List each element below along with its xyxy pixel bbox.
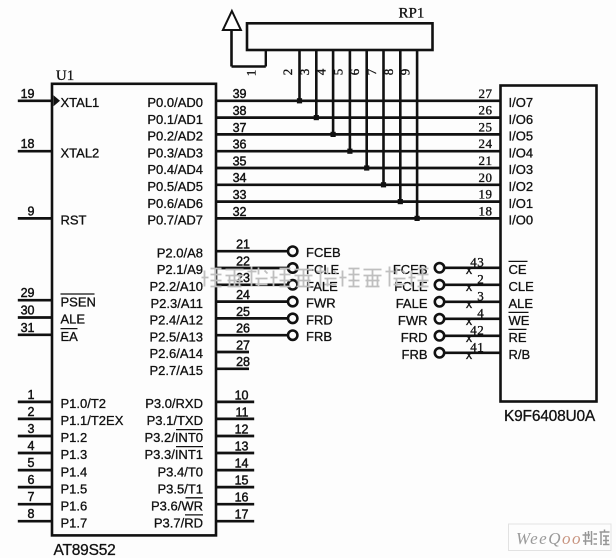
terminal circle FCLE (right): [435, 280, 444, 289]
wire P3.0 stub: [216, 401, 254, 404]
wire pin 31 lead: [18, 333, 52, 336]
terminal circle FALE (left): [288, 280, 297, 289]
wire P0.1/AD1 bus line to I/O6: [216, 116, 501, 119]
terminal circle FWR (right): [435, 314, 444, 323]
wire RP1 pin 2 to P0.0 line: [298, 50, 301, 101]
junction node on P0.6 line: [398, 199, 403, 204]
wire P0.0/AD0 bus line to I/O7: [216, 99, 501, 102]
wire P0.2/AD2 bus line to I/O5: [216, 133, 501, 136]
wire P3.7 stub: [216, 520, 254, 523]
wire pin 8 lead: [18, 520, 52, 523]
junction node on P0.2 line: [331, 132, 336, 137]
overline INT1: [176, 446, 203, 448]
wire FWR to K9F: [445, 317, 501, 320]
wire P0.5/AD5 bus line to I/O2: [216, 183, 501, 186]
wire pin 9 lead: [18, 217, 52, 220]
wire pin 18 lead: [18, 150, 52, 153]
wire pin 2 lead: [18, 418, 52, 421]
wire P0.3/AD3 bus line to I/O4: [216, 150, 501, 153]
overline EA: [61, 328, 78, 330]
wire FRD to K9F: [445, 334, 501, 337]
wire P2.2 to terminal: [216, 283, 287, 286]
wire RP1 pin 7 to P0.5 line: [382, 50, 385, 185]
svg-text:WeeQoo: WeeQoo: [516, 529, 582, 548]
wire P3.2 stub: [216, 435, 254, 438]
wire P0.4/AD4 bus line to I/O3: [216, 167, 501, 170]
wire RP1 pin 3 to P0.1 line: [315, 50, 318, 118]
wire P2.6 stub: [216, 351, 249, 354]
wire RP1 pin 6 to P0.4 line: [365, 50, 368, 168]
terminal circle FRB (right): [435, 348, 444, 357]
wire RP1 pin 9 to P0.7 line: [416, 50, 419, 218]
overline WE: [509, 311, 529, 313]
junction node on P0.4 line: [364, 165, 369, 170]
wire P2.1 to terminal: [216, 267, 287, 270]
wire FCEB to K9F: [445, 266, 501, 269]
terminal circle FRD (left): [288, 314, 297, 323]
wire P3.3 stub: [216, 452, 254, 455]
wire P2.0 to terminal: [216, 250, 287, 253]
维库 pseudo-glyphs: [583, 530, 610, 546]
overline RE: [509, 328, 527, 330]
terminal circle FRD (right): [435, 331, 444, 340]
wire pin 29 lead: [18, 299, 52, 302]
wire pin 4 lead: [18, 452, 52, 455]
wire P2.4 to terminal: [216, 317, 287, 320]
wire P3.6 stub: [216, 503, 254, 506]
wire RP1 pin 4 to P0.2 line: [332, 50, 335, 134]
junction node on P0.3 line: [347, 149, 352, 154]
wire RP1 pin 5 to P0.3 line: [349, 50, 352, 151]
wire pin 1 lead: [18, 401, 52, 404]
wire pin 5 lead: [18, 469, 52, 472]
op-amp U1 AT89S52 microcontroller body: [52, 84, 216, 536]
wire P2.5 to terminal: [216, 334, 287, 337]
wire RP1 pin 1 stub: [265, 50, 267, 67]
terminal circle FCLE (left): [288, 263, 297, 272]
junction node on P0.0 line: [297, 98, 302, 103]
wire P0.6/AD6 bus line to I/O1: [216, 200, 501, 203]
resistor network RP1 body: [247, 23, 433, 50]
wire FCLE to K9F: [445, 283, 501, 286]
junction node on P0.1 line: [314, 115, 319, 120]
power symbol VCC arrow: [223, 11, 241, 30]
overline INT0: [176, 429, 203, 431]
terminal circle FWR (left): [288, 297, 297, 306]
wire P3.4 stub: [216, 469, 254, 472]
overline PSEN: [61, 293, 95, 295]
wire P0.7/AD7 bus line to I/O0: [216, 217, 501, 220]
wire FRB to K9F: [445, 351, 501, 354]
overline CE: [509, 260, 528, 262]
wire pin 7 lead: [18, 503, 52, 506]
wire P2.3 to terminal: [216, 300, 287, 303]
terminal circle FALE (right): [435, 297, 444, 306]
terminal circle FRB (left): [288, 331, 297, 340]
watermark company text (vector pseudo-glyphs): [202, 267, 429, 287]
wire P3.5 stub: [216, 486, 254, 489]
overline WR: [186, 497, 204, 499]
wire P2.7 stub: [216, 367, 249, 370]
U2 K9F6408U0A NAND flash body: [501, 86, 597, 402]
terminal circle FCEB (right): [435, 263, 444, 272]
wire pin 19 lead: [18, 99, 52, 102]
wire pin 30 lead: [18, 316, 52, 319]
wire FALE to K9F: [445, 300, 501, 303]
clock input symbol at XTAL1: [54, 95, 61, 106]
terminal circle FCEB (left): [288, 247, 297, 256]
wire pin 3 lead: [18, 435, 52, 438]
wire VCC to RP1 pin 1: [232, 65, 266, 67]
wire VCC stem: [230, 30, 233, 67]
junction node on P0.5 line: [381, 182, 386, 187]
overline RD: [185, 514, 203, 516]
wire P3.1 stub: [216, 418, 254, 421]
junction node on P0.7 line: [415, 216, 420, 221]
wire RP1 pin 8 to P0.6 line: [399, 50, 402, 202]
wire pin 6 lead: [18, 486, 52, 489]
